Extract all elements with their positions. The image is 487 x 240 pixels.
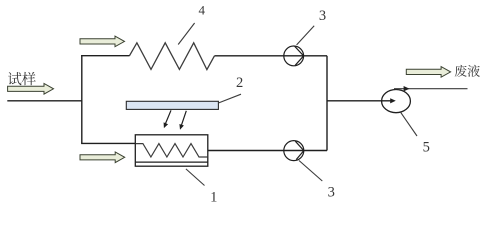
label 3 top leader — [297, 26, 315, 45]
heating coil 4 (zigzag) — [129, 43, 214, 70]
waste block arrow — [406, 67, 450, 78]
right bus vertical wire — [326, 56, 328, 151]
svg-text:1: 1 — [210, 190, 217, 206]
label 2 leader — [218, 94, 241, 103]
svg-text:4: 4 — [198, 2, 205, 17]
label 5 leader — [401, 113, 417, 136]
inlet wire — [7, 100, 82, 102]
upper branch wire to coil — [81, 55, 129, 57]
pump 5 — [382, 90, 411, 113]
lamp bar 2 — [126, 101, 218, 109]
valve 3 top (circle with chords) — [284, 46, 304, 66]
branch tee vertical wire — [81, 55, 83, 143]
wire coil to top valve and corner — [214, 55, 327, 57]
irradiation arrow right — [179, 111, 186, 130]
reactor inner coil — [136, 144, 208, 157]
upper branch block arrow — [80, 36, 125, 47]
svg-text:3: 3 — [319, 8, 326, 24]
waste label 废液 — [455, 65, 480, 77]
outlet wire to pump — [327, 98, 396, 103]
reactor box 1 — [135, 135, 208, 166]
lower branch wire to reactor — [81, 142, 135, 144]
label 1 leader — [186, 169, 205, 186]
valve 3 bottom (circle with chords) — [284, 141, 304, 161]
irradiation arrow left — [164, 110, 171, 128]
sample inlet block arrow — [8, 84, 54, 95]
svg-text:5: 5 — [423, 139, 430, 155]
reactor outlet wire to bottom valve and corner — [208, 150, 327, 152]
reactor inner bottom plate line — [136, 161, 208, 163]
sample label 试样 — [8, 72, 36, 85]
svg-text:2: 2 — [236, 75, 243, 91]
pump outlet wire with arrow — [394, 86, 468, 91]
label 3 bottom leader — [299, 161, 322, 182]
label 4 leader — [178, 23, 194, 45]
svg-text:3: 3 — [328, 185, 335, 201]
lower branch block arrow — [80, 152, 125, 163]
